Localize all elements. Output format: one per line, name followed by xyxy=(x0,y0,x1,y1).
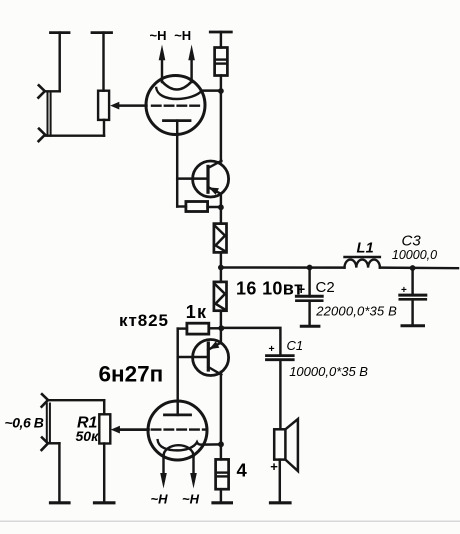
svg-text:C2: C2 xyxy=(316,279,335,296)
svg-text:10000,0: 10000,0 xyxy=(392,248,437,262)
svg-text:~Н: ~Н xyxy=(182,492,200,507)
svg-text:1к: 1к xyxy=(186,302,207,322)
svg-text:+: + xyxy=(401,285,407,296)
svg-text:50к: 50к xyxy=(76,428,100,444)
svg-text:+: + xyxy=(270,459,278,474)
svg-text:L1: L1 xyxy=(357,241,375,257)
svg-text:+: + xyxy=(269,343,275,355)
svg-text:16 10вт: 16 10вт xyxy=(236,279,303,299)
svg-text:+: + xyxy=(297,282,305,297)
svg-text:~Н: ~Н xyxy=(150,28,167,43)
svg-text:10000,0*35 В: 10000,0*35 В xyxy=(289,364,368,379)
svg-text:6н27п: 6н27п xyxy=(99,362,164,387)
svg-text:~Н: ~Н xyxy=(151,492,169,507)
svg-text:22000,0*35 В: 22000,0*35 В xyxy=(315,303,397,318)
svg-text:~Н: ~Н xyxy=(174,28,191,43)
svg-text:C1: C1 xyxy=(287,338,304,353)
svg-text:кт825: кт825 xyxy=(119,311,169,330)
svg-text:4: 4 xyxy=(237,459,248,480)
svg-text:~0,6 В: ~0,6 В xyxy=(5,414,44,430)
